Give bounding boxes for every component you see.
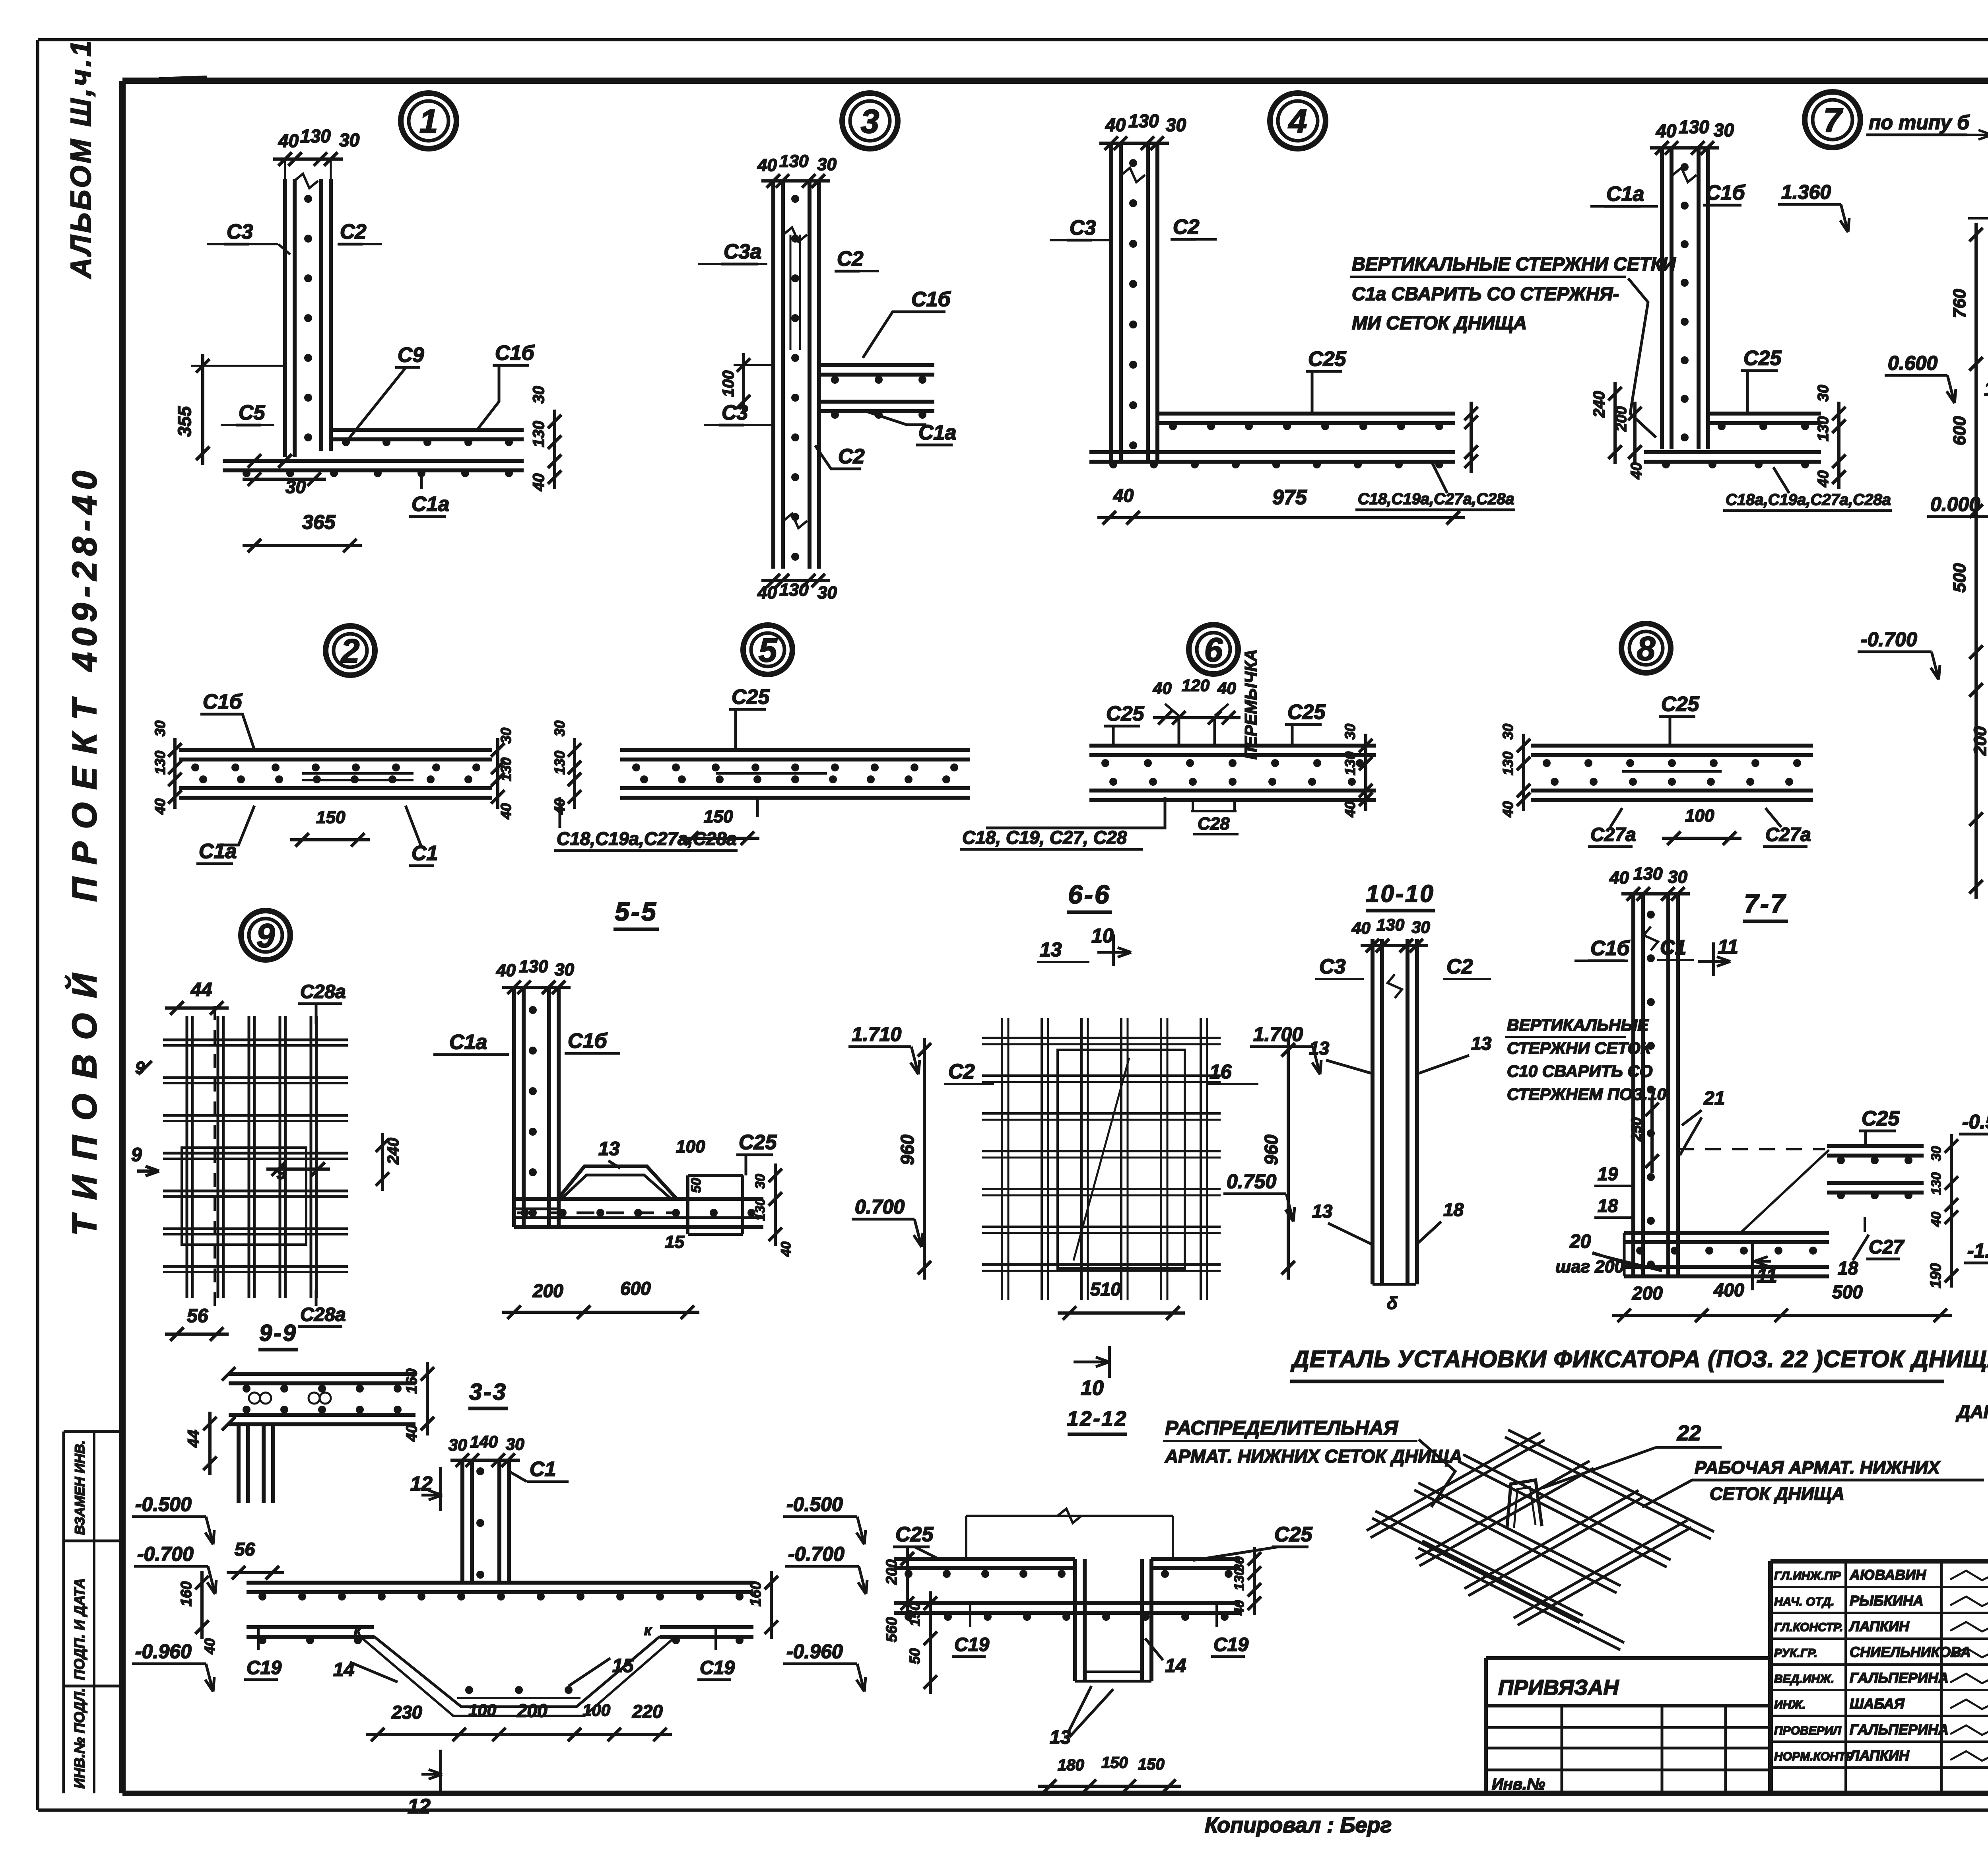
svg-text:С1б: С1б xyxy=(1590,937,1630,960)
svg-text:С2: С2 xyxy=(1173,216,1200,239)
svg-text:С25: С25 xyxy=(895,1523,934,1546)
svg-text:120: 120 xyxy=(1182,676,1209,695)
svg-text:40: 40 xyxy=(1351,919,1371,937)
svg-text:130: 130 xyxy=(152,751,168,775)
svg-text:ВЕРТИКАЛЬНЫЕ СТЕРЖНИ СЕТКИ: ВЕРТИКАЛЬНЫЕ СТЕРЖНИ СЕТКИ xyxy=(1352,253,1676,274)
svg-text:16: 16 xyxy=(1209,1061,1232,1083)
svg-text:7-7: 7-7 xyxy=(1744,889,1786,918)
svg-text:С19: С19 xyxy=(954,1634,989,1655)
svg-text:200: 200 xyxy=(516,1700,547,1721)
svg-text:НОРМ.КОНТР: НОРМ.КОНТР xyxy=(1774,1750,1854,1763)
svg-text:150: 150 xyxy=(704,807,733,826)
svg-text:9-9: 9-9 xyxy=(259,1320,297,1346)
svg-text:40: 40 xyxy=(202,1638,218,1655)
svg-text:220: 220 xyxy=(632,1701,663,1722)
svg-text:1: 1 xyxy=(419,103,438,140)
svg-text:40: 40 xyxy=(1232,1600,1247,1616)
svg-text:10: 10 xyxy=(1081,1377,1104,1400)
svg-text:40: 40 xyxy=(1217,679,1236,697)
svg-text:С18а,С19а,С27а,С28а: С18а,С19а,С27а,С28а xyxy=(1726,491,1891,509)
svg-text:960: 960 xyxy=(1261,1134,1281,1165)
svg-text:30: 30 xyxy=(1929,1146,1944,1161)
svg-text:4: 4 xyxy=(1288,103,1307,140)
svg-text:40: 40 xyxy=(152,798,168,815)
svg-text:С1б: С1б xyxy=(911,288,951,311)
svg-text:С2: С2 xyxy=(948,1060,975,1083)
svg-text:30: 30 xyxy=(1668,867,1687,887)
svg-text:к: к xyxy=(354,1622,362,1638)
svg-text:56: 56 xyxy=(235,1539,255,1560)
svg-text:С2: С2 xyxy=(838,445,865,468)
svg-text:ДАННЫЙ ЛИСТ СМ. СОВМЕСТНО С ЛИ: ДАННЫЙ ЛИСТ СМ. СОВМЕСТНО С ЛИСТАМИ КЖ 1… xyxy=(1955,1401,1988,1422)
svg-text:ШАБАЯ: ШАБАЯ xyxy=(1850,1696,1905,1712)
svg-text:С27: С27 xyxy=(1869,1237,1905,1258)
svg-text:500: 500 xyxy=(1832,1282,1863,1302)
svg-text:СТЕРЖНЕМ ПОЗ.10: СТЕРЖНЕМ ПОЗ.10 xyxy=(1507,1085,1666,1103)
svg-text:СЕТОК ДНИЩА: СЕТОК ДНИЩА xyxy=(1710,1484,1844,1504)
svg-text:С1а: С1а xyxy=(449,1031,487,1054)
svg-text:11: 11 xyxy=(1757,1265,1777,1287)
svg-text:0.700: 0.700 xyxy=(855,1196,905,1218)
svg-text:30: 30 xyxy=(1500,724,1516,740)
svg-text:50: 50 xyxy=(907,1648,923,1664)
svg-text:200: 200 xyxy=(532,1280,563,1301)
svg-text:Копировал : Берг: Копировал : Берг xyxy=(1205,1813,1392,1837)
svg-text:365: 365 xyxy=(302,511,336,533)
svg-text:200: 200 xyxy=(1613,406,1630,432)
svg-text:ВЕРТИКАЛЬНЫЕ: ВЕРТИКАЛЬНЫЕ xyxy=(1507,1016,1649,1034)
svg-text:22: 22 xyxy=(1677,1421,1701,1445)
svg-text:5-5: 5-5 xyxy=(615,897,657,926)
svg-text:С2: С2 xyxy=(837,247,864,270)
svg-text:С19: С19 xyxy=(700,1657,735,1678)
svg-text:С27а: С27а xyxy=(1590,824,1636,845)
svg-text:40: 40 xyxy=(1153,679,1172,697)
svg-text:С25: С25 xyxy=(1862,1107,1900,1130)
svg-text:30: 30 xyxy=(1342,724,1358,740)
svg-text:8: 8 xyxy=(1637,630,1656,667)
svg-text:РЫБКИНА: РЫБКИНА xyxy=(1850,1593,1924,1609)
svg-text:130: 130 xyxy=(779,152,809,171)
svg-text:15: 15 xyxy=(665,1232,684,1252)
svg-text:130: 130 xyxy=(1376,915,1404,934)
svg-text:600: 600 xyxy=(620,1278,651,1299)
svg-text:МИ СЕТОК ДНИЩА: МИ СЕТОК ДНИЩА xyxy=(1352,312,1527,333)
svg-text:-0.500: -0.500 xyxy=(135,1493,192,1515)
svg-text:ПРОЕКТ: ПРОЕКТ xyxy=(66,686,104,902)
svg-text:С3: С3 xyxy=(1319,955,1346,978)
svg-text:130: 130 xyxy=(753,1198,768,1221)
svg-text:С1а СВАРИТЬ СО СТЕРЖНЯ-: С1а СВАРИТЬ СО СТЕРЖНЯ- xyxy=(1352,283,1619,304)
svg-text:СТЕРЖНИ СЕТОК: СТЕРЖНИ СЕТОК xyxy=(1507,1039,1652,1057)
svg-text:21: 21 xyxy=(1703,1088,1725,1109)
svg-text:40: 40 xyxy=(1929,1212,1944,1227)
svg-text:100: 100 xyxy=(582,1701,610,1719)
svg-text:по типу б: по типу б xyxy=(1869,111,1970,134)
svg-text:130: 130 xyxy=(1929,1172,1944,1195)
svg-text:130: 130 xyxy=(1500,752,1516,775)
svg-text:160: 160 xyxy=(747,1581,764,1606)
svg-text:ПРИВЯЗАН: ПРИВЯЗАН xyxy=(1498,1676,1619,1700)
svg-text:7: 7 xyxy=(1823,101,1843,139)
svg-text:200: 200 xyxy=(1632,1283,1663,1303)
svg-text:-0.500: -0.500 xyxy=(1962,1111,1988,1133)
svg-text:500: 500 xyxy=(1950,563,1969,592)
svg-text:0.750: 0.750 xyxy=(1227,1170,1276,1193)
svg-text:С28: С28 xyxy=(1198,814,1230,833)
svg-text:18: 18 xyxy=(1838,1258,1858,1278)
svg-text:30: 30 xyxy=(506,1435,524,1453)
svg-text:ИНВ.№ ПОДЛ.: ИНВ.№ ПОДЛ. xyxy=(71,1688,87,1789)
svg-text:130: 130 xyxy=(1679,117,1709,137)
svg-text:АРМАТ. НИЖНИХ СЕТОК ДНИЩА: АРМАТ. НИЖНИХ СЕТОК ДНИЩА xyxy=(1165,1446,1462,1467)
svg-text:С25: С25 xyxy=(1308,348,1346,371)
svg-text:-0.960: -0.960 xyxy=(135,1640,192,1663)
svg-text:30: 30 xyxy=(1166,115,1186,135)
svg-text:40: 40 xyxy=(1628,462,1645,480)
svg-text:30: 30 xyxy=(152,721,168,736)
svg-text:20: 20 xyxy=(1569,1231,1591,1252)
svg-text:3: 3 xyxy=(861,103,879,140)
svg-text:С3а: С3а xyxy=(724,240,761,263)
svg-text:30: 30 xyxy=(551,721,568,736)
svg-text:6-6: 6-6 xyxy=(1068,880,1110,909)
svg-text:-0.700: -0.700 xyxy=(137,1543,194,1565)
svg-text:140: 140 xyxy=(470,1432,498,1451)
svg-text:40: 40 xyxy=(1500,801,1516,818)
svg-text:С1а: С1а xyxy=(412,493,449,516)
svg-text:12-12: 12-12 xyxy=(1067,1407,1128,1430)
svg-text:600: 600 xyxy=(1950,416,1969,445)
svg-text:40: 40 xyxy=(1342,801,1358,818)
svg-text:240: 240 xyxy=(1590,391,1608,418)
svg-text:Инв.№: Инв.№ xyxy=(1492,1775,1545,1793)
svg-text:С25: С25 xyxy=(1661,693,1699,716)
svg-text:50: 50 xyxy=(689,1178,704,1193)
svg-text:ВЕД.ИНЖ.: ВЕД.ИНЖ. xyxy=(1774,1672,1834,1686)
svg-text:40: 40 xyxy=(1656,120,1677,141)
svg-text:130: 130 xyxy=(1633,864,1663,884)
svg-text:С3: С3 xyxy=(722,401,748,424)
svg-text:40: 40 xyxy=(1609,868,1629,888)
svg-text:13: 13 xyxy=(1312,1201,1333,1222)
svg-text:С27а: С27а xyxy=(1765,824,1811,845)
svg-text:С2: С2 xyxy=(1446,955,1473,978)
svg-text:С18, С19, С27, С28: С18, С19, С27, С28 xyxy=(962,827,1127,848)
svg-text:С1б: С1б xyxy=(203,690,243,713)
svg-text:С28а: С28а xyxy=(300,981,346,1002)
svg-text:760: 760 xyxy=(1950,289,1969,318)
svg-text:13: 13 xyxy=(1471,1033,1492,1054)
svg-text:40: 40 xyxy=(757,155,777,175)
svg-text:9: 9 xyxy=(256,917,275,954)
svg-text:δ: δ xyxy=(1387,1294,1398,1313)
svg-text:13: 13 xyxy=(1309,1038,1330,1059)
svg-text:130: 130 xyxy=(300,126,331,146)
svg-text:30: 30 xyxy=(339,130,360,150)
svg-text:190: 190 xyxy=(1928,1263,1944,1288)
svg-text:160: 160 xyxy=(178,1581,195,1606)
svg-text:10-10: 10-10 xyxy=(1366,880,1435,907)
svg-text:40: 40 xyxy=(779,1241,794,1257)
svg-text:ГАЛЬПЕРИНА: ГАЛЬПЕРИНА xyxy=(1850,1721,1949,1738)
svg-text:9: 9 xyxy=(131,1144,142,1165)
svg-text:100: 100 xyxy=(676,1137,705,1156)
svg-text:С19: С19 xyxy=(247,1657,282,1678)
svg-text:ВЗАМЕН ИНВ.: ВЗАМЕН ИНВ. xyxy=(72,1440,87,1535)
svg-text:975: 975 xyxy=(1272,486,1307,509)
svg-text:40: 40 xyxy=(1105,115,1126,135)
svg-text:АЮВАВИН: АЮВАВИН xyxy=(1849,1567,1926,1583)
svg-text:0.600: 0.600 xyxy=(1888,352,1938,374)
svg-text:ПРОВЕРИЛ: ПРОВЕРИЛ xyxy=(1774,1724,1842,1737)
svg-text:15: 15 xyxy=(612,1655,634,1676)
svg-text:13: 13 xyxy=(1040,938,1062,961)
svg-text:С1б: С1б xyxy=(568,1029,608,1053)
svg-text:С5: С5 xyxy=(239,401,266,424)
svg-text:100: 100 xyxy=(1685,806,1714,826)
svg-text:ГАЛЬПЕРИНА: ГАЛЬПЕРИНА xyxy=(1850,1670,1949,1686)
svg-text:С1а: С1а xyxy=(199,840,237,863)
svg-text:5: 5 xyxy=(759,631,778,669)
svg-text:С19: С19 xyxy=(1213,1634,1248,1655)
svg-text:С10 СВАРИТЬ СО: С10 СВАРИТЬ СО xyxy=(1507,1062,1652,1080)
svg-text:150: 150 xyxy=(1138,1756,1165,1773)
svg-text:44: 44 xyxy=(185,1430,202,1448)
svg-text:С9: С9 xyxy=(398,344,424,367)
svg-text:30: 30 xyxy=(1411,918,1430,936)
svg-text:150: 150 xyxy=(316,808,346,827)
svg-text:С25: С25 xyxy=(739,1131,777,1154)
svg-text:200: 200 xyxy=(1971,726,1988,756)
svg-text:13: 13 xyxy=(598,1138,620,1160)
svg-text:ПОДП. И ДАТА: ПОДП. И ДАТА xyxy=(71,1578,87,1680)
svg-text:-1.00: -1.00 xyxy=(1967,1239,1988,1262)
svg-text:0.000: 0.000 xyxy=(1930,493,1980,515)
svg-text:С1: С1 xyxy=(530,1458,556,1481)
svg-text:ЛАПКИН: ЛАПКИН xyxy=(1848,1618,1910,1634)
svg-text:РУК.ГР.: РУК.ГР. xyxy=(1774,1647,1817,1660)
svg-text:130: 130 xyxy=(1815,416,1832,441)
svg-text:-0.700: -0.700 xyxy=(1861,628,1917,651)
svg-text:960: 960 xyxy=(897,1134,918,1165)
svg-text:200: 200 xyxy=(883,1560,900,1585)
svg-text:30: 30 xyxy=(753,1174,768,1189)
svg-text:30: 30 xyxy=(555,960,574,979)
svg-text:100: 100 xyxy=(720,371,737,397)
svg-text:560: 560 xyxy=(883,1617,900,1642)
svg-text:1.710: 1.710 xyxy=(852,1023,901,1045)
svg-text:6: 6 xyxy=(1204,631,1223,668)
svg-text:РАСПРЕДЕЛИТЕЛЬНАЯ: РАСПРЕДЕЛИТЕЛЬНАЯ xyxy=(1165,1417,1398,1439)
svg-text:30: 30 xyxy=(448,1435,467,1454)
svg-text:30: 30 xyxy=(1714,120,1734,140)
svg-text:250: 250 xyxy=(1628,1117,1644,1142)
svg-text:1.700: 1.700 xyxy=(1253,1023,1303,1045)
svg-text:40: 40 xyxy=(278,130,299,151)
svg-text:130: 130 xyxy=(498,758,514,781)
svg-text:30: 30 xyxy=(817,583,837,602)
svg-text:ИНЖ.: ИНЖ. xyxy=(1774,1698,1806,1711)
svg-text:3-3: 3-3 xyxy=(469,1379,507,1405)
svg-text:30: 30 xyxy=(530,386,547,404)
svg-text:к: к xyxy=(644,1622,652,1638)
svg-text:ГЛ.ИНЖ.ПР: ГЛ.ИНЖ.ПР xyxy=(1774,1569,1841,1583)
svg-text:14: 14 xyxy=(1165,1655,1186,1676)
svg-text:40: 40 xyxy=(496,961,516,980)
svg-text:11: 11 xyxy=(1718,936,1738,958)
svg-text:С1а: С1а xyxy=(1606,183,1644,206)
svg-text:30: 30 xyxy=(817,155,837,174)
svg-text:С25: С25 xyxy=(1287,701,1326,724)
svg-text:30: 30 xyxy=(1815,385,1832,402)
svg-text:С2: С2 xyxy=(340,220,367,243)
svg-text:13: 13 xyxy=(1984,378,1988,400)
svg-text:С25: С25 xyxy=(732,686,770,709)
svg-text:355: 355 xyxy=(174,406,195,437)
svg-text:130: 130 xyxy=(551,751,568,775)
svg-text:130: 130 xyxy=(1342,752,1358,775)
svg-text:230: 230 xyxy=(391,1702,422,1723)
svg-text:ДЕТАЛЬ УСТАНОВКИ ФИКСАТОРА (ПО: ДЕТАЛЬ УСТАНОВКИ ФИКСАТОРА (ПОЗ. 22 )СЕТ… xyxy=(1290,1346,1988,1372)
svg-text:56: 56 xyxy=(187,1305,208,1327)
svg-text:18: 18 xyxy=(1443,1199,1464,1220)
svg-text:НАЧ. ОТД.: НАЧ. ОТД. xyxy=(1774,1595,1834,1608)
svg-text:С25: С25 xyxy=(1274,1523,1312,1546)
svg-text:12: 12 xyxy=(408,1795,431,1818)
svg-text:18: 18 xyxy=(1598,1195,1618,1216)
svg-text:180: 180 xyxy=(1058,1756,1084,1774)
svg-text:С1: С1 xyxy=(1660,936,1686,959)
svg-text:-0.700: -0.700 xyxy=(788,1543,845,1565)
svg-text:ПЕРЕМЫЧКА: ПЕРЕМЫЧКА xyxy=(1241,649,1260,759)
svg-text:С1б: С1б xyxy=(1706,181,1745,204)
svg-text:44: 44 xyxy=(190,979,212,1000)
svg-text:19: 19 xyxy=(1598,1164,1618,1184)
svg-text:-0.960: -0.960 xyxy=(786,1640,843,1663)
svg-text:СНИЕЛЬНИКОВА: СНИЕЛЬНИКОВА xyxy=(1850,1644,1971,1660)
svg-text:409-28-40: 409-28-40 xyxy=(66,465,104,672)
svg-text:510: 510 xyxy=(1090,1279,1121,1299)
svg-text:40: 40 xyxy=(1815,470,1832,488)
svg-text:РАБОЧАЯ АРМАТ. НИЖНИХ: РАБОЧАЯ АРМАТ. НИЖНИХ xyxy=(1695,1457,1941,1478)
svg-text:С28а: С28а xyxy=(300,1304,346,1325)
svg-text:40: 40 xyxy=(498,803,514,820)
svg-text:30: 30 xyxy=(498,728,514,744)
svg-text:130: 130 xyxy=(1128,111,1159,131)
svg-text:400: 400 xyxy=(1713,1280,1744,1300)
svg-text:АЛЬБОМ Ш,ч.1: АЛЬБОМ Ш,ч.1 xyxy=(65,38,97,279)
svg-text:130: 130 xyxy=(519,957,548,976)
svg-text:130: 130 xyxy=(1232,1568,1247,1591)
svg-text:10: 10 xyxy=(1091,925,1114,947)
svg-text:40: 40 xyxy=(404,1425,420,1442)
svg-text:40: 40 xyxy=(1113,485,1134,506)
svg-text:С3: С3 xyxy=(227,220,253,243)
svg-text:40: 40 xyxy=(530,474,547,492)
svg-text:130: 130 xyxy=(530,421,547,447)
svg-text:150: 150 xyxy=(907,1602,923,1626)
svg-text:2: 2 xyxy=(340,632,360,670)
svg-text:С1б: С1б xyxy=(495,342,535,365)
svg-text:ТИПОВОЙ: ТИПОВОЙ xyxy=(65,958,104,1236)
svg-text:С25: С25 xyxy=(1106,702,1144,725)
svg-text:С1: С1 xyxy=(412,842,438,865)
svg-text:1.360: 1.360 xyxy=(1781,181,1831,203)
svg-text:100: 100 xyxy=(468,1701,496,1719)
svg-text:ЛАПКИН: ЛАПКИН xyxy=(1848,1747,1910,1764)
svg-text:С18,С19а,С27а,С28а: С18,С19а,С27а,С28а xyxy=(1358,490,1514,508)
svg-text:С25: С25 xyxy=(1743,347,1782,370)
svg-text:160: 160 xyxy=(404,1369,420,1394)
svg-text:С3: С3 xyxy=(1070,216,1096,239)
svg-text:150: 150 xyxy=(1101,1754,1128,1771)
svg-text:-0.500: -0.500 xyxy=(786,1493,843,1515)
svg-text:ГЛ.КОНСТР.: ГЛ.КОНСТР. xyxy=(1774,1621,1843,1634)
svg-text:С18,С19а,С27а,С28а: С18,С19а,С27а,С28а xyxy=(557,828,737,849)
